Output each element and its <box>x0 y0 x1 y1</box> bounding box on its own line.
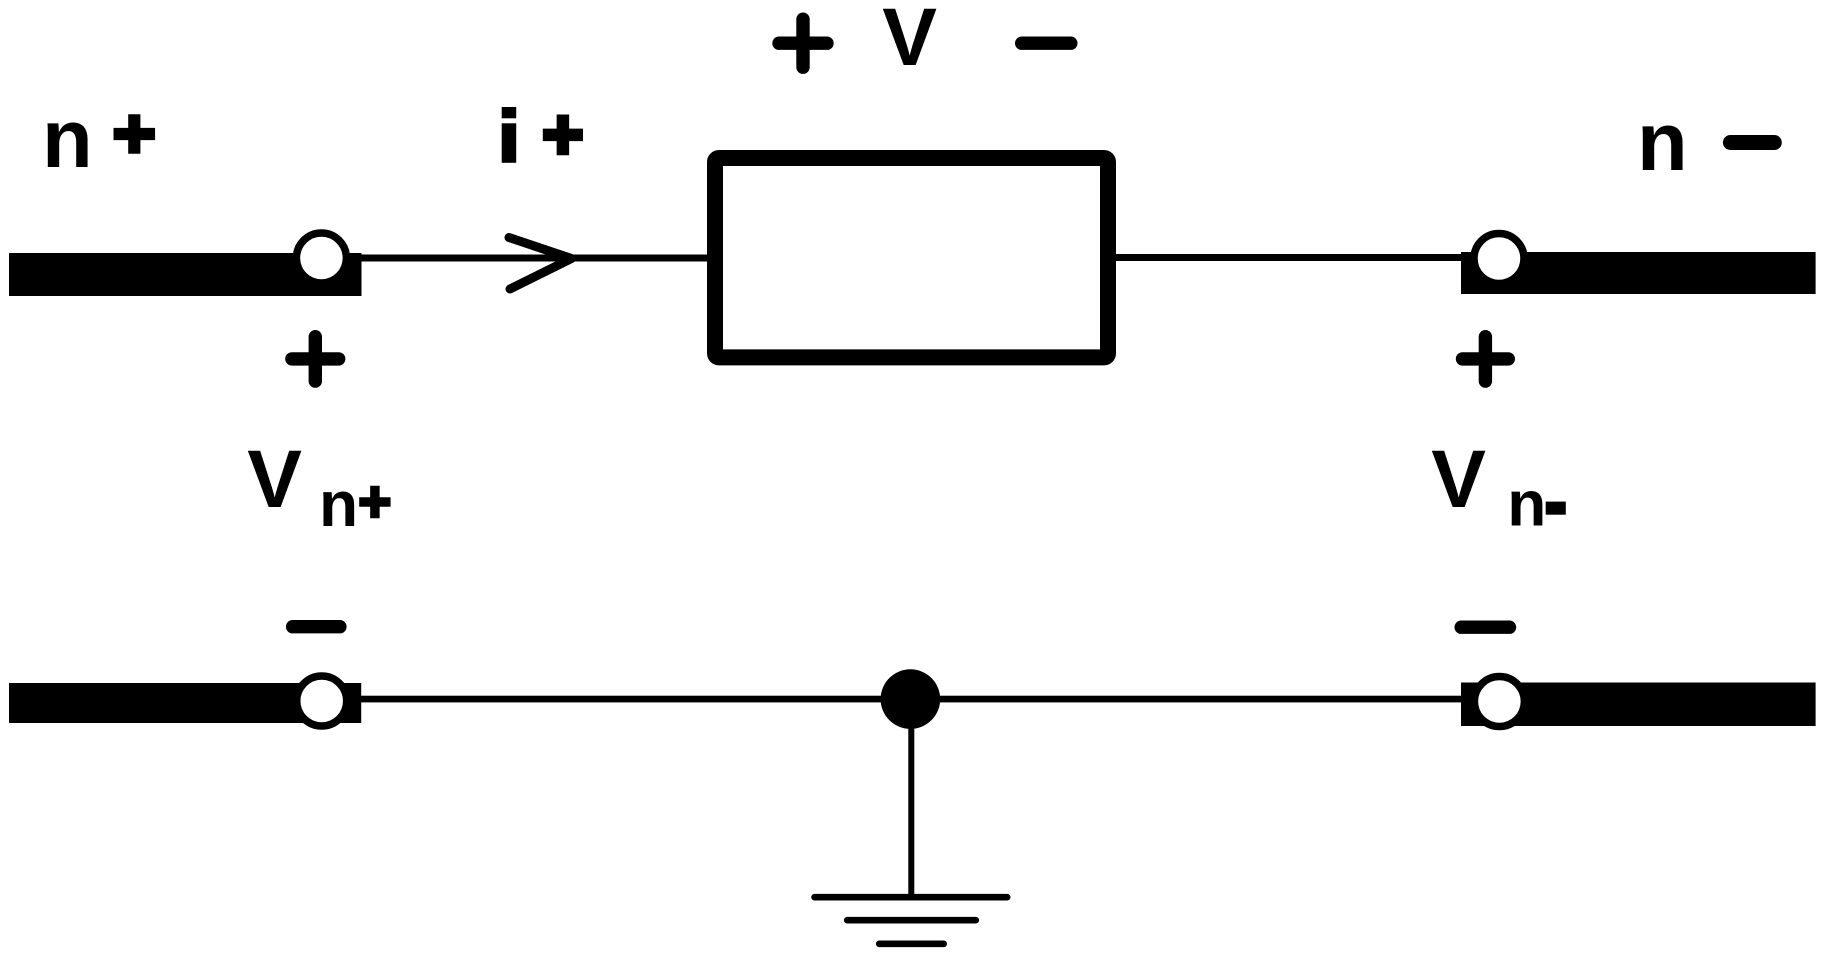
wire: bottom reference rail <box>358 696 1462 703</box>
Vn+ minus polarity mark <box>293 620 340 633</box>
wire: element to node n- <box>1112 254 1462 261</box>
terminal pin n+ <box>296 233 346 283</box>
generic circuit element box <box>715 158 1108 357</box>
node voltage Vn+ label <box>247 434 390 540</box>
node n+ name label <box>42 92 155 185</box>
Vn+ plus polarity mark <box>292 337 339 381</box>
branch voltage V minus polarity mark <box>1022 37 1071 50</box>
wire: external lead bar at bottom-left reference terminal <box>9 683 361 723</box>
svg-text:V: V <box>1431 434 1486 525</box>
svg-text:n: n <box>42 92 93 185</box>
current direction arrow i+ <box>509 238 572 290</box>
svg-text:n: n <box>1637 95 1688 188</box>
wire: external lead bar at bottom-right reference terminal <box>1461 683 1816 727</box>
branch voltage V plus polarity mark <box>779 19 827 67</box>
terminal pin bottom-left reference <box>297 676 347 726</box>
terminal pin bottom-right reference <box>1474 677 1524 727</box>
terminal pin n- <box>1474 234 1524 284</box>
node voltage Vn- label <box>1431 434 1566 539</box>
wire: external lead bar at node n- <box>1461 252 1816 294</box>
Vn- plus polarity mark <box>1463 337 1509 381</box>
current i+ label <box>502 107 583 163</box>
node n- name label <box>1637 95 1774 188</box>
wire: junction to ground <box>908 699 914 897</box>
Vn- minus polarity mark <box>1461 621 1509 634</box>
wire: external lead bar at node n+ <box>9 253 362 296</box>
junction node dot <box>881 669 941 729</box>
svg-text:n: n <box>1507 467 1546 539</box>
wire: node n+ to element <box>358 255 711 262</box>
svg-text:n: n <box>319 468 358 540</box>
ground <box>815 897 1008 944</box>
svg-text:V: V <box>247 434 302 525</box>
svg-text:V: V <box>882 0 937 83</box>
